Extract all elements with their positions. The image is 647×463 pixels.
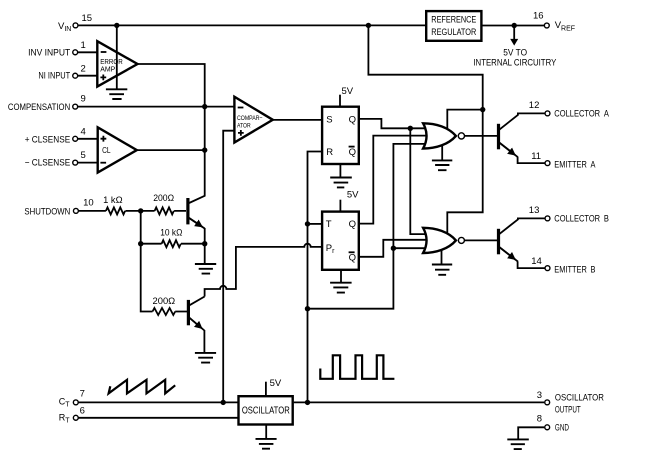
- wire VIN rail left: [78, 24, 427, 26]
- svg-text:14: 14: [531, 256, 542, 267]
- svg-text:Q: Q: [349, 253, 356, 264]
- wire gnd pin8: [518, 427, 544, 439]
- svg-text:Q: Q: [349, 114, 356, 125]
- box oscillator: [239, 396, 293, 424]
- pin 2: [73, 73, 78, 78]
- svg-text:+ CLSENSE: + CLSENSE: [25, 134, 70, 144]
- wire 5V stub T flipflop: [339, 200, 341, 212]
- svg-text:COMPAR−: COMPAR−: [237, 115, 263, 122]
- plus error amp: [100, 75, 106, 81]
- ground SR latch: [330, 178, 352, 188]
- ground error amp: [106, 89, 127, 99]
- node vin branch: [366, 23, 371, 28]
- svg-text:1: 1: [81, 40, 86, 51]
- node oscillator output: [305, 400, 310, 405]
- pin 11: [545, 161, 550, 166]
- wire 5V stub SR latch: [339, 95, 341, 107]
- waveform square: [320, 355, 394, 379]
- wire CL output: [137, 149, 205, 151]
- pin 3: [545, 400, 550, 405]
- op-amp error amp triangle: [97, 41, 137, 86]
- wire shutdown divider vertical to 200ohm2: [141, 211, 188, 312]
- svg-text:7: 7: [80, 389, 85, 400]
- svg-text:13: 13: [529, 205, 540, 216]
- svg-text:5V: 5V: [347, 190, 359, 201]
- svg-text:EMITTER A: EMITTER A: [554, 160, 596, 170]
- svg-text:OSCILLATOR: OSCILLATOR: [555, 393, 604, 403]
- svg-text:6: 6: [80, 406, 85, 417]
- wire emitter A to pin11: [518, 157, 545, 163]
- svg-text:5V TO: 5V TO: [503, 48, 527, 58]
- wire comparator plus input from CT: [223, 131, 235, 403]
- minus error amp: [101, 51, 107, 53]
- box reference regulator: [426, 11, 481, 41]
- resistor 200ohm upper: [155, 207, 174, 214]
- svg-text:5V: 5V: [270, 378, 282, 389]
- svg-text:1 kΩ: 1 kΩ: [103, 195, 123, 205]
- node CL output: [202, 147, 207, 152]
- svg-text:REFERENCE: REFERENCE: [431, 14, 476, 24]
- wire NOR B ground stem: [441, 249, 443, 265]
- pin 10: [73, 208, 78, 213]
- svg-text:15: 15: [82, 13, 93, 24]
- NOR gate B: [423, 228, 456, 253]
- wire VIN branch to NOR gate supplies: [368, 25, 482, 235]
- pin 12: [545, 111, 550, 116]
- svg-text:4: 4: [81, 126, 86, 137]
- wire collector A to pin12: [499, 113, 546, 130]
- resistor 200ohm lower: [153, 308, 176, 315]
- op-amp CL triangle: [98, 127, 137, 172]
- plus comparator: [238, 130, 244, 136]
- svg-text:SHUTDOWN: SHUTDOWN: [24, 207, 70, 217]
- svg-text:2: 2: [81, 63, 86, 74]
- pin 6: [73, 415, 78, 420]
- svg-text:R: R: [326, 147, 333, 158]
- transistor QB output: [497, 229, 500, 255]
- wire cl sense +: [77, 138, 97, 140]
- node blanking branch: [305, 306, 310, 311]
- op-amp comparator triangle: [234, 97, 272, 143]
- svg-text:ATOR: ATOR: [237, 123, 251, 130]
- svg-text:CL: CL: [102, 146, 111, 155]
- wire emitter B to pin14: [518, 261, 545, 268]
- node T input: [305, 221, 310, 226]
- wire oscillator output to pin3: [294, 401, 545, 403]
- wire error amp ni input: [77, 75, 97, 77]
- node NOR supply: [480, 107, 485, 112]
- NOR gate A: [423, 123, 456, 148]
- wire collector B to pin13: [499, 218, 546, 234]
- svg-text:GND: GND: [555, 422, 569, 432]
- svg-text:COMPENSATION: COMPENSATION: [8, 102, 70, 112]
- resistor 10k: [162, 240, 181, 247]
- transistor Q2 shutdown: [187, 300, 190, 325]
- svg-text:S: S: [326, 114, 332, 125]
- svg-text:12: 12: [529, 100, 540, 111]
- wire T flipflop Q to NOR A input2: [359, 136, 430, 224]
- svg-text:AMP: AMP: [100, 67, 115, 74]
- minus comparator: [238, 107, 244, 109]
- ground pin8: [507, 439, 529, 449]
- pin 7: [73, 400, 78, 405]
- ground NOR B: [432, 265, 452, 275]
- box SR latch: [322, 107, 359, 164]
- pin 8: [545, 425, 550, 430]
- wire R input from oscillator line: [308, 152, 323, 403]
- wire oscillator ground stem: [265, 425, 267, 439]
- svg-text:INV INPUT: INV INPUT: [28, 47, 70, 57]
- svg-text:3: 3: [537, 390, 542, 401]
- svg-text:COLLECTOR B: COLLECTOR B: [554, 214, 609, 224]
- pin 14: [545, 266, 550, 271]
- wire T flipflop ground stem: [340, 270, 342, 283]
- box T flipflop: [322, 212, 359, 270]
- ground T flipflop: [330, 283, 352, 293]
- wire NOR A ground stem: [441, 144, 443, 160]
- node Q to NORB: [408, 126, 413, 131]
- svg-text:NI INPUT: NI INPUT: [38, 70, 70, 80]
- svg-text:10: 10: [83, 198, 94, 209]
- node 10k left: [138, 241, 143, 246]
- node vin bias: [114, 23, 119, 28]
- svg-text:ERROR: ERROR: [100, 59, 123, 66]
- wire shutdown input: [78, 210, 186, 212]
- wire compensation line: [77, 106, 234, 108]
- wire error amp output down to collector node: [138, 64, 205, 197]
- svg-text:INTERNAL CIRCUITRY: INTERNAL CIRCUITRY: [473, 57, 556, 67]
- pin 4: [73, 136, 78, 141]
- svg-text:T: T: [326, 219, 332, 230]
- wire T input: [308, 223, 323, 225]
- wire comparator output to S: [273, 119, 322, 121]
- wire NOR B output to base B: [465, 239, 498, 241]
- svg-text:5V: 5V: [342, 86, 354, 97]
- wire SR latch Q to NOR A input1: [359, 119, 430, 128]
- svg-text:8: 8: [537, 413, 542, 424]
- wire RT line: [78, 417, 238, 419]
- wire blanking branch to NOR B input3: [393, 247, 430, 249]
- waveform sawtooth: [109, 380, 176, 394]
- wire T flipflop Qbar to NOR B input2: [359, 240, 430, 257]
- svg-text:OSCILLATOR: OSCILLATOR: [242, 406, 290, 417]
- svg-text:16: 16: [533, 11, 544, 22]
- 5V arrow to internal circuitry: [513, 26, 515, 40]
- svg-text:9: 9: [81, 94, 86, 105]
- svg-text:OUTPUT: OUTPUT: [555, 404, 581, 414]
- svg-text:10 kΩ: 10 kΩ: [160, 227, 182, 237]
- node 10k right: [202, 241, 207, 246]
- ground Q2: [195, 353, 216, 363]
- svg-text:200Ω: 200Ω: [153, 296, 176, 306]
- wire VIN rail right to pin16: [481, 25, 545, 27]
- wire oscillator blanking to NOR A input3: [308, 144, 431, 309]
- node CT comparator: [221, 400, 226, 405]
- ground oscillator: [256, 439, 277, 449]
- pin 16: [544, 23, 549, 28]
- ground Q1: [195, 264, 216, 274]
- resistor 1k: [106, 207, 125, 214]
- wire 10k row: [141, 243, 205, 245]
- wire 5V stub oscillator: [265, 382, 267, 396]
- wire error amp inv input: [77, 51, 97, 53]
- wire cl sense -: [77, 162, 97, 164]
- svg-text:Q: Q: [349, 219, 356, 230]
- node 5v tap: [512, 23, 517, 28]
- wire VIN bias through error amp: [116, 25, 118, 89]
- wire Q branch to NOR B input1: [410, 128, 430, 234]
- wire CT line: [78, 401, 238, 403]
- svg-text:11: 11: [531, 151, 541, 162]
- svg-text:Q: Q: [349, 147, 356, 158]
- pin 13: [545, 216, 550, 221]
- ground NOR A: [432, 160, 452, 170]
- pin 9: [73, 104, 78, 109]
- svg-text:REGULATOR: REGULATOR: [431, 27, 476, 37]
- wire SR latch ground stem: [339, 164, 341, 178]
- pin 5: [73, 160, 78, 165]
- svg-text:COLLECTOR A: COLLECTOR A: [554, 109, 609, 119]
- svg-text:200Ω: 200Ω: [153, 193, 174, 203]
- plus CL: [101, 136, 107, 142]
- svg-text:5: 5: [81, 150, 86, 161]
- pin 1: [73, 50, 78, 55]
- node blanking NORB: [391, 246, 396, 251]
- wire Q2 collector to Pr with hops: [205, 244, 323, 297]
- transistor QA output: [497, 124, 500, 150]
- wire NOR A output to base A: [465, 135, 498, 137]
- pin 15: [73, 23, 78, 28]
- transistor Q1 shutdown: [186, 198, 189, 224]
- node compensation: [202, 104, 207, 109]
- node shutdown divider: [138, 208, 143, 213]
- minus CL: [100, 162, 106, 164]
- wire NOR A supply stub: [447, 110, 482, 131]
- svg-text:EMITTER B: EMITTER B: [554, 264, 595, 274]
- svg-text:− CLSENSE: − CLSENSE: [25, 158, 70, 168]
